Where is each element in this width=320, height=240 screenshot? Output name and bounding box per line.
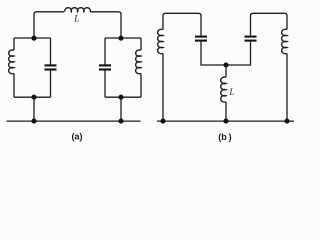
wire: from right capacitor down and left to center junction	[226, 42, 251, 65]
wire: bottom rail of left tank (a)	[14, 96, 51, 98]
wire: right tank upper-right segment	[140, 38, 142, 50]
wire: bottom rail of right tank (a)	[105, 96, 141, 98]
inductor of right tank (a), 4 bumps bulging left	[136, 50, 141, 74]
wire: (b) right branch lower segment	[286, 54, 288, 122]
inductor L (middle of circuit b), 4 bumps bulging left	[221, 77, 226, 102]
capacitor left of (b), bottom plate	[195, 40, 207, 42]
capacitor right of (b), top plate	[245, 36, 257, 38]
wire: center junction down to inductor L	[225, 65, 227, 77]
node: junction dot on rail below middle inductor of (b)	[223, 119, 228, 124]
wire: top rail of right tank (a)	[105, 37, 141, 39]
inductor right branch of (b), 4 bumps bulging left	[282, 29, 287, 53]
capacitor of left tank (a), top plate	[45, 64, 57, 66]
wire: left tank upper-left segment	[13, 38, 15, 50]
wire: right tank lower-left segment from capacitor	[104, 71, 106, 98]
wire: left tank down-lead to ground rail	[33, 97, 35, 121]
node: junction dot on rail below right branch of (b)	[284, 119, 289, 124]
wire: left tank lower-left segment	[13, 74, 15, 98]
wire: (b) left branch lower segment	[162, 54, 164, 122]
svg-text:(b ): (b )	[218, 132, 231, 142]
wire: ground rail of circuit (b)	[157, 120, 294, 122]
wire: left tank upper-right segment to capacitor	[50, 38, 52, 65]
node: junction dot bottom of right tank (a)	[118, 95, 123, 100]
node: center junction dot of (b)	[223, 62, 228, 67]
node: junction dot bottom of left tank (a)	[31, 95, 36, 100]
node: junction dot on rail below left branch of (b)	[160, 119, 165, 124]
capacitor left of (b), top plate	[195, 36, 207, 38]
capacitor of left tank (a), bottom plate	[45, 68, 57, 70]
inductor left branch of (b), 4 bumps bulging left	[158, 29, 163, 54]
wire: (a) top loop left riser and rail to inductor	[34, 12, 64, 39]
wire: (b) left branch upper segment and top rail to capacitor	[163, 13, 201, 35]
node: junction dot top of left tank (a)	[31, 36, 36, 41]
wire: (b) right branch upper segment and top rail to capacitor	[251, 13, 288, 35]
node: junction dot on rail below right tank	[118, 119, 123, 124]
capacitor of right tank (a), top plate	[99, 64, 111, 66]
wire: from left capacitor down and right to center junction	[201, 42, 226, 65]
wire: right tank upper-left segment to capacitor	[104, 38, 106, 65]
inductor L (top of circuit a), 4 bumps	[65, 8, 91, 12]
svg-text:(a): (a)	[72, 132, 83, 142]
node: junction dot top of right tank (a)	[118, 36, 123, 41]
wire: top rail of left tank (a)	[14, 37, 51, 39]
wire: ground rail of circuit (a)	[7, 120, 141, 122]
inductor of left tank (a), 4 bumps bulging left	[9, 50, 14, 74]
node: junction dot on rail below left tank	[31, 119, 36, 124]
wire: left tank lower-right segment from capacitor	[50, 71, 52, 98]
wire: right tank down-lead to ground rail	[120, 97, 122, 121]
capacitor right of (b), bottom plate	[245, 40, 257, 42]
wire: (a) top rail right of inductor and right riser	[90, 12, 121, 39]
capacitor of right tank (a), bottom plate	[99, 68, 111, 70]
svg-text:L: L	[228, 87, 234, 97]
wire: right tank lower-right segment	[140, 74, 142, 98]
wire: middle inductor to ground rail	[225, 102, 227, 121]
svg-text:L: L	[73, 14, 79, 24]
